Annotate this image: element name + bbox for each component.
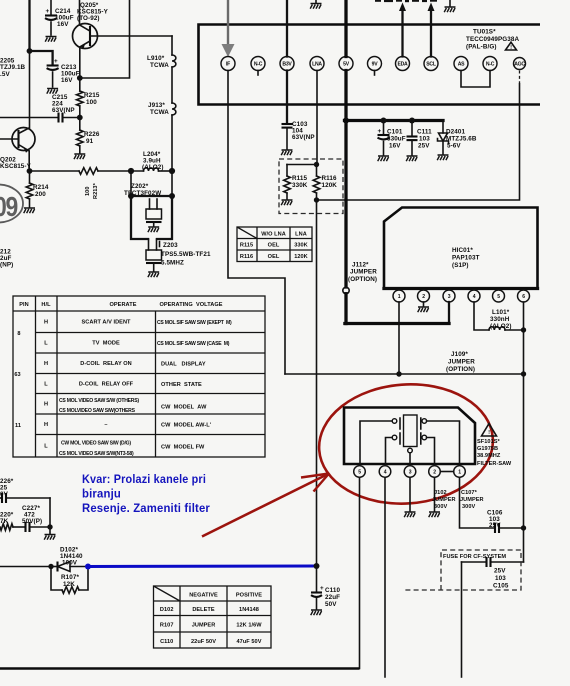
table W/O LNA xyxy=(237,227,312,262)
svg-text:TZJ9.1B: TZJ9.1B xyxy=(0,64,26,71)
svg-text:50V(P): 50V(P) xyxy=(22,518,42,525)
node B junction xyxy=(77,75,83,81)
svg-text:R116: R116 xyxy=(240,254,253,260)
svg-text:+: + xyxy=(378,128,382,135)
wire J913 down to L204 wire xyxy=(171,115,173,171)
svg-text:100: 100 xyxy=(85,187,91,196)
svg-text:330K: 330K xyxy=(292,182,308,189)
svg-text:9V: 9V xyxy=(372,61,379,67)
resistor R226 xyxy=(79,118,81,131)
svg-text:SCL: SCL xyxy=(426,61,436,67)
capacitor C106 xyxy=(494,523,496,533)
svg-text:N-C: N-C xyxy=(254,61,263,67)
pin 9V xyxy=(368,57,382,71)
ground below Z203 xyxy=(148,272,159,277)
svg-text:OEL: OEL xyxy=(268,254,280,260)
ground below C101 xyxy=(378,156,389,161)
pin 3 filter xyxy=(404,466,416,478)
svg-text:J102: J102 xyxy=(434,490,447,496)
svg-text:63: 63 xyxy=(14,372,20,378)
svg-text:91: 91 xyxy=(86,138,94,145)
SAW filter inner element xyxy=(404,415,418,447)
ground below C227 node xyxy=(49,527,51,534)
capacitor C213 xyxy=(47,64,59,66)
5V feed wire to HIC01 xyxy=(345,322,449,325)
Q205 collector wire up xyxy=(79,0,81,25)
svg-text:OPERATE: OPERATE xyxy=(110,302,137,308)
wire node B to corner x129 xyxy=(80,0,130,78)
SCL wire up with arrow xyxy=(430,8,432,57)
svg-text:38.9MHZ: 38.9MHZ xyxy=(477,453,501,459)
wire left to D102 xyxy=(0,566,51,568)
svg-text:(OPTION): (OPTION) xyxy=(348,276,377,283)
svg-text:D102: D102 xyxy=(160,607,174,613)
bottom frame wire xyxy=(0,667,360,670)
ground stub top at LNA column xyxy=(315,0,317,3)
svg-text:MTZJ5.6B: MTZJ5.6B xyxy=(446,136,477,143)
ground below R214 xyxy=(24,208,35,213)
svg-text:Resenje. Zameniti filter: Resenje. Zameniti filter xyxy=(82,501,210,515)
wire R213 to L204 xyxy=(98,170,144,172)
fuse dashed box xyxy=(403,550,521,590)
svg-text:16V: 16V xyxy=(61,77,73,84)
svg-text:CS MOL SIF SAW S/W (EXEPT M): CS MOL SIF SAW S/W (EXEPT M) xyxy=(157,320,232,326)
svg-text:(NP): (NP) xyxy=(0,262,13,269)
pin N-C 2 xyxy=(251,57,265,71)
svg-text:L910*: L910* xyxy=(147,55,165,62)
svg-text:JUMPER: JUMPER xyxy=(192,623,216,629)
ground below R226 xyxy=(74,154,85,159)
pin AGC xyxy=(514,58,526,70)
hybrid IC HIC01 box xyxy=(384,208,538,289)
svg-text:TCWA: TCWA xyxy=(150,62,169,69)
svg-text:330nH: 330nH xyxy=(490,316,510,323)
warning triangle tuner xyxy=(506,42,517,50)
capacitor C214 feed wire xyxy=(50,0,52,14)
svg-text:C110: C110 xyxy=(160,639,173,645)
svg-text:5-6V: 5-6V xyxy=(447,143,461,150)
svg-text:22uF: 22uF xyxy=(325,594,340,601)
svg-text:H: H xyxy=(44,402,48,408)
svg-text:5: 5 xyxy=(358,469,361,475)
B3V wire to C103 xyxy=(286,71,288,124)
pin N-C 10 xyxy=(483,57,497,71)
resistor R213 horizontal xyxy=(79,168,98,175)
dashed option box R115 R116 xyxy=(279,159,343,214)
B3V wire from top xyxy=(286,0,288,57)
capacitor C215 on wire from left xyxy=(0,117,57,119)
svg-text:1: 1 xyxy=(458,469,461,475)
svg-text:J913*: J913* xyxy=(148,102,165,109)
capacitor C226 at left edge xyxy=(0,497,2,499)
filter pin1 wire to C106 xyxy=(460,477,494,528)
capacitor C111 xyxy=(411,121,413,136)
node E junction Z202 left xyxy=(128,168,134,174)
svg-text:C110: C110 xyxy=(325,587,341,594)
svg-text:63V(NP: 63V(NP xyxy=(292,134,315,141)
node L204 right junction xyxy=(169,168,175,174)
svg-text:L101*: L101* xyxy=(492,309,510,316)
svg-text:H: H xyxy=(44,422,48,428)
filter internal wires xyxy=(360,421,392,464)
svg-text:25V: 25V xyxy=(418,143,430,150)
svg-text:H: H xyxy=(44,320,48,326)
svg-text:25V: 25V xyxy=(494,568,506,575)
svg-text:120K: 120K xyxy=(322,182,338,189)
svg-text:5.5MHZ: 5.5MHZ xyxy=(161,260,184,267)
svg-text:NEGATIVE: NEGATIVE xyxy=(189,593,218,599)
inductor L910 xyxy=(172,55,176,67)
ground below C214 xyxy=(45,37,56,42)
svg-text:1: 1 xyxy=(398,294,401,300)
svg-text:25V: 25V xyxy=(489,522,501,529)
wire L101 to pin6 rail xyxy=(505,329,524,331)
capacitor C101 xyxy=(383,121,385,135)
jumper J913 xyxy=(172,103,176,115)
warning triangle filter xyxy=(482,424,497,437)
node D102 left junction xyxy=(48,564,53,569)
svg-text:50V: 50V xyxy=(325,601,337,608)
capacitor C103 xyxy=(282,123,293,125)
svg-text:G1975B: G1975B xyxy=(477,446,498,452)
svg-text:+: + xyxy=(46,8,50,15)
resonator Z203 xyxy=(146,250,162,260)
svg-text:R115: R115 xyxy=(240,243,253,249)
svg-text:R107*: R107* xyxy=(61,574,79,581)
node A junction xyxy=(27,48,33,54)
svg-text:3: 3 xyxy=(448,294,451,300)
Q202 collector wire up to node A xyxy=(29,51,31,128)
wire L910 to J913 xyxy=(171,67,173,103)
resistor R215 xyxy=(79,78,81,91)
jumper J109 wire xyxy=(285,373,524,375)
table negative positive xyxy=(154,586,272,648)
ground stub top right xyxy=(449,0,451,6)
svg-text:4: 4 xyxy=(384,469,387,475)
wire R115 top xyxy=(287,164,317,166)
svg-text:CW MODEL FW: CW MODEL FW xyxy=(161,445,205,451)
svg-text:6: 6 xyxy=(522,294,525,300)
pin 1 HIC01 xyxy=(393,290,405,302)
svg-text:100: 100 xyxy=(86,99,97,106)
SAW filter SF101 box xyxy=(344,408,475,465)
tuner TU01S box xyxy=(199,25,541,105)
AGC dotted stub xyxy=(519,71,521,85)
svg-text:J109*: J109* xyxy=(451,351,468,358)
wire node A to C213 top xyxy=(30,51,53,64)
svg-text:CS MOL VIDEO SAW S/W(NT3-58): CS MOL VIDEO SAW S/W(NT3-58) xyxy=(59,451,134,457)
svg-text:AS: AS xyxy=(458,61,465,67)
red arrow annotation xyxy=(202,475,327,537)
svg-text:OTHER STATE: OTHER STATE xyxy=(161,382,202,388)
pin 1 filter xyxy=(454,466,466,478)
table PIN operate voltage xyxy=(13,296,265,457)
svg-text:C105: C105 xyxy=(493,583,509,590)
blue repair wire xyxy=(88,565,317,569)
svg-text:103: 103 xyxy=(495,575,506,582)
svg-text:Z202*: Z202* xyxy=(131,183,149,190)
AS to N-C bracket wire xyxy=(461,71,490,88)
svg-text:FUSE FOR CF-SYSTEM: FUSE FOR CF-SYSTEM xyxy=(443,554,506,560)
node C101 junction xyxy=(381,118,387,124)
svg-text:PAP103T: PAP103T xyxy=(452,255,480,262)
svg-text:TCWA: TCWA xyxy=(150,109,169,116)
svg-text:2: 2 xyxy=(433,469,436,475)
capacitor C214 xyxy=(45,14,57,16)
svg-text:C111: C111 xyxy=(417,129,432,136)
svg-text:CW MODEL AW: CW MODEL AW xyxy=(161,405,207,411)
svg-text:D-COIL RELAY OFF: D-COIL RELAY OFF xyxy=(79,382,134,388)
capacitor C227 xyxy=(13,526,26,528)
HIC01 pin1 wire down xyxy=(398,302,400,374)
pin 4 filter xyxy=(379,466,391,478)
resistor R214 xyxy=(29,171,31,183)
node pin1 J109 junction xyxy=(396,371,401,376)
node R116 bottom AGC junction xyxy=(314,197,319,202)
node 5V bus junction xyxy=(343,118,349,124)
pin 6 HIC01 xyxy=(518,290,530,302)
svg-text:KSC815-Y: KSC815-Y xyxy=(0,163,32,170)
cut text fragments top edge xyxy=(375,0,381,2)
svg-text:CS MOL SIF SAW S/W (CASE M): CS MOL SIF SAW S/W (CASE M) xyxy=(157,341,230,347)
ground below C110 xyxy=(311,610,322,615)
pin EDA xyxy=(396,57,410,71)
HIC01 pin6 rail down xyxy=(523,302,525,562)
capacitor C110 xyxy=(316,566,318,592)
svg-text:FILTER-SAW: FILTER-SAW xyxy=(477,461,512,467)
LNA wire down xyxy=(316,71,318,165)
svg-text:TU01S*: TU01S* xyxy=(473,29,496,36)
svg-text:PIN: PIN xyxy=(19,302,28,308)
EDA wire up with arrow xyxy=(401,8,403,57)
svg-text:D2401: D2401 xyxy=(446,129,465,136)
capacitor C105 xyxy=(485,557,487,567)
pin 5 HIC01 xyxy=(493,290,505,302)
wire C226 down to node xyxy=(49,498,51,527)
filter pin4 wire down xyxy=(384,477,386,677)
node L101 junction xyxy=(521,327,526,332)
blue wire left node xyxy=(85,564,91,570)
svg-text:2: 2 xyxy=(422,294,425,300)
svg-text:330K: 330K xyxy=(294,243,308,249)
svg-text:CW MODEL AW-L': CW MODEL AW-L' xyxy=(161,423,212,429)
svg-text:HIC01*: HIC01* xyxy=(452,247,473,254)
node blue wire right junction xyxy=(314,563,320,569)
ground below C213 xyxy=(47,89,58,94)
svg-text:.5V: .5V xyxy=(0,71,10,78)
svg-text:biranju: biranju xyxy=(82,487,121,501)
svg-text:CS MOL VIDEO SAW S/W (OTHERS): CS MOL VIDEO SAW S/W (OTHERS) xyxy=(59,398,139,404)
pin SCL xyxy=(424,57,438,71)
svg-text:5: 5 xyxy=(497,294,500,300)
svg-text:330uF: 330uF xyxy=(387,136,406,143)
svg-text:16V: 16V xyxy=(57,21,69,28)
svg-text:SCART A/V IDENT: SCART A/V IDENT xyxy=(81,320,131,326)
node C junction xyxy=(77,115,83,121)
svg-text:C101: C101 xyxy=(387,129,403,136)
inductor L204 xyxy=(144,168,159,171)
HIC01 pin2 ground xyxy=(423,302,425,306)
pin LNA xyxy=(310,57,324,71)
Q205 emitter wire down to node B xyxy=(79,48,81,79)
svg-text:4: 4 xyxy=(473,294,476,300)
ground below R115 xyxy=(281,200,292,205)
SAW filter terminals xyxy=(392,419,397,424)
svg-text:TPS5.5WB-TF21: TPS5.5WB-TF21 xyxy=(161,251,211,258)
svg-text:H: H xyxy=(44,361,48,367)
svg-text:+: + xyxy=(54,58,58,65)
svg-text:11: 11 xyxy=(15,423,21,429)
filter Z202 box xyxy=(130,171,132,196)
inductor L101 xyxy=(489,327,505,330)
svg-text:12K: 12K xyxy=(63,581,75,588)
svg-text:200: 200 xyxy=(35,191,46,198)
red ellipse highlight xyxy=(315,379,497,510)
svg-text:CS MOLVIDEO SAW S/W(OTHERS: CS MOLVIDEO SAW S/W(OTHERS xyxy=(59,408,136,414)
ground below D2401 xyxy=(437,155,448,160)
svg-text:0V: 0V xyxy=(0,491,9,498)
R107 bypass loop xyxy=(51,567,88,591)
svg-text:W/O LNA: W/O LNA xyxy=(261,232,286,238)
transistor Q202 xyxy=(12,128,35,151)
svg-text:L: L xyxy=(44,341,48,347)
pin IF xyxy=(221,57,235,71)
svg-text:(ALO2): (ALO2) xyxy=(142,164,164,171)
svg-text:–: – xyxy=(104,422,107,428)
right rail vertical with L910 J913 xyxy=(171,36,173,55)
5V thick rail through tuner down xyxy=(344,71,347,288)
transistor Q205 xyxy=(73,24,98,49)
svg-text:7K: 7K xyxy=(0,518,9,525)
pin AS xyxy=(454,57,468,71)
resistor R220 at left edge xyxy=(0,524,13,531)
node C227 junction xyxy=(47,524,52,529)
svg-text:C107*: C107* xyxy=(461,490,478,496)
svg-text:12K 1/6W: 12K 1/6W xyxy=(236,623,262,629)
wire pin2 to pin1 xyxy=(440,471,453,473)
svg-text:B3V: B3V xyxy=(282,61,292,67)
svg-text:SF101S*: SF101S* xyxy=(477,439,501,445)
node LNA R115 R116 junction xyxy=(314,162,319,167)
pin B3V xyxy=(280,57,294,71)
svg-text:EDA: EDA xyxy=(397,61,408,67)
svg-text:CW MOL VIDEO SAW S/W (D/G): CW MOL VIDEO SAW S/W (D/G) xyxy=(61,441,131,447)
svg-text:OPERATING VOLTAGE: OPERATING VOLTAGE xyxy=(159,302,222,308)
svg-text:TV MODE: TV MODE xyxy=(92,341,120,347)
wire pin6 rail elbow to bottom xyxy=(492,561,524,563)
svg-text:LNA: LNA xyxy=(295,232,307,238)
node D junction emitter xyxy=(27,168,33,174)
jumper J112 on 5V rail xyxy=(343,287,349,293)
pin 4 HIC01 xyxy=(468,290,480,302)
svg-text:POSITIVE: POSITIVE xyxy=(236,593,262,599)
resistor R116 xyxy=(316,165,318,177)
wire L204 to right rail corner xyxy=(159,170,173,172)
AGC wire down and left to R116 node xyxy=(317,84,520,200)
svg-text:Kvar: Prolazi kanele pri: Kvar: Prolazi kanele pri xyxy=(82,472,206,486)
svg-text:(OPTION): (OPTION) xyxy=(446,366,475,373)
svg-text:R115: R115 xyxy=(292,175,308,182)
svg-text:JUMPER: JUMPER xyxy=(460,497,484,503)
Z202 inner resonator xyxy=(149,199,151,209)
resistor R107 xyxy=(62,587,79,594)
svg-text:47uF 50V: 47uF 50V xyxy=(237,639,262,645)
pin 2 filter xyxy=(429,466,441,478)
svg-text:300V: 300V xyxy=(434,504,447,510)
ground below C111 xyxy=(406,156,417,161)
svg-text:R213*: R213* xyxy=(93,182,99,199)
Q205 base wire to right rail xyxy=(90,35,172,37)
svg-text:JUMPER: JUMPER xyxy=(432,497,456,503)
svg-text:(PAL-B/G): (PAL-B/G) xyxy=(466,44,497,51)
svg-text:OEL: OEL xyxy=(268,243,280,249)
svg-text:JUMPER: JUMPER xyxy=(350,269,377,276)
ground inside Z202 xyxy=(148,227,159,232)
svg-text:1N4148: 1N4148 xyxy=(239,607,259,613)
diode D102 xyxy=(51,566,58,568)
svg-text:09: 09 xyxy=(0,192,18,223)
IF wire below tuner xyxy=(228,71,285,375)
filter pin2 ground xyxy=(434,477,436,511)
node C106 junction xyxy=(521,525,526,530)
svg-text:D-COIL RELAY ON: D-COIL RELAY ON xyxy=(80,361,131,367)
svg-text:LNA: LNA xyxy=(312,61,322,67)
svg-text:R215: R215 xyxy=(84,92,100,99)
svg-text:DUAL DISPLAY: DUAL DISPLAY xyxy=(161,362,206,368)
svg-text:+: + xyxy=(320,585,324,592)
HIC01 pin3 wire to 5V feed xyxy=(448,302,450,324)
svg-text:(ALO2): (ALO2) xyxy=(490,323,512,330)
svg-text:120K: 120K xyxy=(294,254,308,260)
5V distribution bus xyxy=(345,119,444,122)
zener diode D2401 xyxy=(442,121,444,134)
LNA line down to blue node xyxy=(316,200,318,566)
svg-text:8: 8 xyxy=(17,331,20,337)
IF input arrow gray xyxy=(227,0,229,45)
filter pin3 ground xyxy=(409,477,411,511)
svg-text:22uF 50V: 22uF 50V xyxy=(191,639,216,645)
node J109 right junction xyxy=(521,371,526,376)
svg-text:R226: R226 xyxy=(84,131,100,138)
svg-text:AGC: AGC xyxy=(514,61,525,67)
pin 2 HIC01 xyxy=(418,290,430,302)
svg-text:300V: 300V xyxy=(462,504,475,510)
Z202 legs to Z203 xyxy=(148,239,150,250)
node C111 junction xyxy=(409,118,415,124)
svg-text:L: L xyxy=(44,382,48,388)
svg-text:R214: R214 xyxy=(33,184,49,191)
wire vertical to node A from top xyxy=(28,0,30,51)
stamp 09 ellipse xyxy=(0,185,23,223)
filter pin5 wire to bottom rail xyxy=(359,477,361,668)
svg-text:5V: 5V xyxy=(343,61,350,67)
svg-text:DELETE: DELETE xyxy=(192,607,215,613)
svg-text:103: 103 xyxy=(419,136,430,143)
svg-text:J112*: J112* xyxy=(352,262,369,269)
5V thick rail from top xyxy=(344,0,347,57)
pin 5V xyxy=(339,57,353,71)
ground below C103 xyxy=(281,150,292,155)
svg-text:JUMPER: JUMPER xyxy=(448,359,475,366)
svg-text:(TO-92): (TO-92) xyxy=(77,15,100,22)
svg-text:R107: R107 xyxy=(160,623,174,629)
HIC01 pin4 wire to L101 xyxy=(474,302,489,330)
svg-text:H/L: H/L xyxy=(41,302,51,308)
pin 5 filter xyxy=(354,466,366,478)
svg-text:R116: R116 xyxy=(322,175,338,182)
svg-text:L: L xyxy=(44,444,48,450)
resistor R115 xyxy=(286,165,288,177)
